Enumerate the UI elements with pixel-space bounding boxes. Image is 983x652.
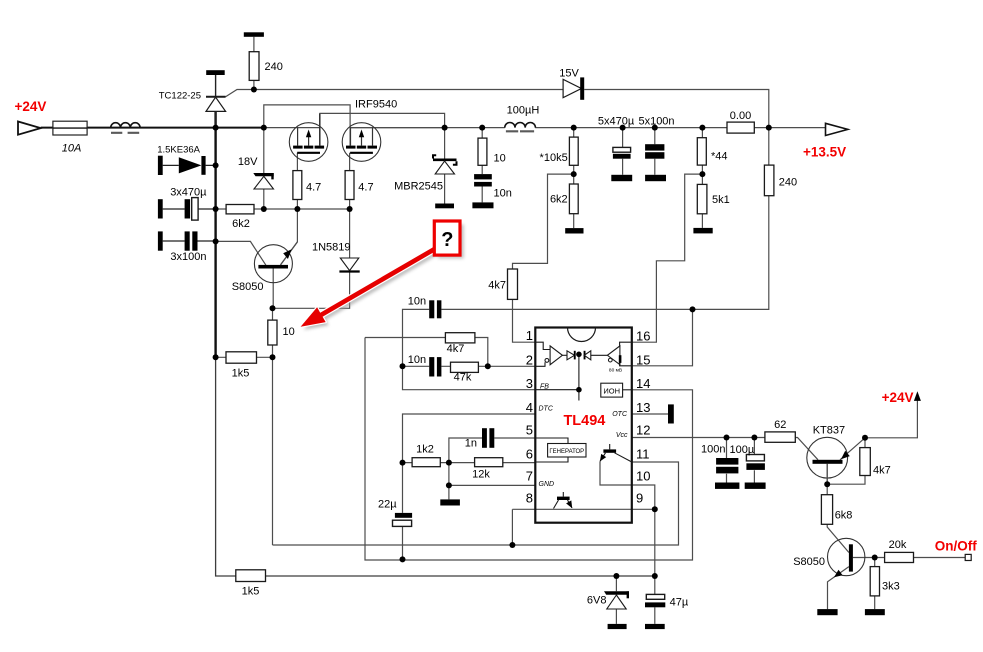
terminal On/Off: [965, 554, 971, 560]
wire: thyristor gate to 240 resistor node: [226, 90, 254, 97]
wire: S8050 collector to 3k3/20k node: [853, 557, 875, 559]
transistor S8050 (on/off): [828, 538, 865, 577]
wire: 10n compensation line to pin area: [403, 309, 693, 389]
wire: MBR2545 branch: [444, 128, 446, 204]
wire: 4.7 resistors to drive row: [297, 200, 349, 210]
svg-text:18V: 18V: [238, 156, 258, 168]
output port arrow +13.5V: [826, 123, 848, 135]
capacitor 100n (Vcc): [716, 458, 738, 465]
resistor 10 (snubber): [478, 138, 487, 165]
capacitor 5x100n: [645, 144, 664, 150]
resistor 4.7 (right gate): [345, 171, 354, 200]
wire: 5x100n branch: [654, 128, 656, 175]
wire: gray rail from gate node to 15V diode and +13.5V node: [254, 90, 769, 128]
transistor Q1 internal (pins 8/9): [554, 492, 573, 509]
svg-text:4.7: 4.7: [306, 182, 321, 194]
resistor 4k7 (KT837 pullup): [860, 448, 871, 476]
callout arrow shadow: [304, 250, 440, 330]
comparator 2 (right): [591, 342, 632, 366]
svg-text:11: 11: [636, 447, 650, 462]
svg-text:4: 4: [526, 400, 533, 415]
svg-text:*10k5: *10k5: [540, 152, 568, 164]
wire: 47u branch: [654, 576, 656, 624]
svg-text:80 мВ: 80 мВ: [609, 367, 622, 373]
wire: main output line with 100uH gap: [350, 127, 825, 129]
svg-text:S8050: S8050: [793, 556, 825, 568]
wire: 10 + 10n snubber branch: [481, 128, 483, 203]
svg-text:12k: 12k: [472, 469, 490, 481]
thyristor TC122-25: [206, 97, 226, 112]
wire: 1N5819 branch: [273, 209, 350, 308]
svg-text:10A: 10A: [62, 143, 82, 155]
wire: 4k7 feedback row: [365, 338, 488, 367]
capacitor 10n (compensation top): [429, 300, 434, 318]
diode 15V: [563, 77, 584, 99]
wire: 10 resistor chain down to drive line: [272, 308, 274, 545]
svg-text:?: ?: [441, 229, 453, 251]
wire: pin 10 / Q2 emitter path: [600, 461, 655, 509]
power terminal bar above 240: [244, 32, 264, 37]
svg-text:1k5: 1k5: [242, 586, 260, 598]
resistor 1k2: [412, 458, 440, 467]
capacitor 3x470u: [185, 199, 191, 218]
wire: 1.5KE36A row: [163, 164, 216, 166]
wire: 240 output resistor branch: [693, 128, 769, 310]
wire: pin 11 drive line to lower rail: [273, 462, 679, 545]
wire: pin 12 Vcc line: [632, 437, 765, 439]
resistor 4k7 (pin1 feedback): [508, 269, 518, 299]
svg-text:4k7: 4k7: [447, 343, 465, 355]
svg-text:4k7: 4k7: [488, 280, 506, 292]
box ION reference: [601, 383, 623, 397]
svg-text:3x100n: 3x100n: [170, 251, 206, 263]
svg-text:240: 240: [779, 177, 797, 189]
wire: TC122-25 anode/cathode leads: [215, 75, 217, 128]
power terminal bar above TC122-25: [206, 70, 225, 75]
svg-text:240: 240: [265, 61, 283, 73]
svg-text:OTC: OTC: [612, 411, 628, 418]
svg-text:3x470µ: 3x470µ: [170, 187, 207, 199]
svg-text:14: 14: [636, 376, 650, 391]
ground 5x100n: [645, 175, 666, 181]
box generator (oscillator): [535, 438, 586, 462]
wire: comparator output to FB node: [535, 354, 579, 400]
wire: MOSFET gate leads to 4.7 resistors: [297, 153, 349, 171]
svg-text:15V: 15V: [559, 68, 579, 80]
resistor 1k5 (upper): [226, 352, 257, 363]
svg-text:GND: GND: [539, 481, 555, 488]
svg-text:7: 7: [526, 469, 533, 484]
svg-text:8: 8: [526, 491, 533, 506]
wire: 10n/47k row to pin 2: [403, 365, 536, 367]
svg-text:10: 10: [636, 469, 650, 484]
svg-text:1k5: 1k5: [232, 368, 250, 380]
zener diode 18V: [253, 173, 273, 189]
ground 5x470u: [611, 175, 632, 181]
wire: KT837 base lead from 62: [795, 438, 818, 460]
svg-text:+24V: +24V: [15, 99, 47, 114]
svg-text:22µ: 22µ: [378, 499, 397, 511]
svg-text:6V8: 6V8: [587, 595, 607, 607]
op-amp/IC TL494 body: [535, 328, 632, 523]
wire: KT837 collector chain: [827, 464, 849, 553]
ground 6k2 divider: [565, 228, 583, 233]
wire: 100u cap branch: [753, 438, 755, 483]
svg-text:100µ: 100µ: [730, 444, 755, 456]
inductor input filter: [111, 123, 140, 128]
capacitor 1n: [482, 428, 487, 448]
svg-text:5x470µ: 5x470µ: [598, 116, 635, 128]
svg-text:0.00: 0.00: [730, 110, 751, 122]
comparator 1 (left): [535, 342, 567, 366]
wire: 6V8 branch: [615, 576, 617, 624]
svg-text:47µ: 47µ: [670, 597, 689, 609]
wire: *44 / 5k1 divider branch: [701, 128, 703, 228]
resistor 1k5 (lower): [236, 570, 266, 582]
wire: S8050 base line from bus: [216, 241, 266, 265]
svg-text:ГЕНЕРАТОР: ГЕНЕРАТОР: [549, 449, 584, 455]
resistor 6k2 (left): [226, 205, 254, 214]
input port arrow +24V: [18, 122, 41, 135]
svg-text:1N5819: 1N5819: [312, 242, 351, 254]
svg-text:62: 62: [774, 419, 786, 431]
wire: left MOSFET drain to output node: [320, 113, 445, 145]
diode pair at comparator outputs: [567, 351, 591, 360]
wire: pin 16 to *44/5k1 tap: [632, 174, 703, 342]
svg-text:3: 3: [526, 376, 533, 391]
fuse 10A: [53, 121, 87, 135]
wire: 20k to On/Off terminal: [875, 557, 966, 559]
svg-text:13: 13: [636, 400, 650, 415]
wire: 6k2 drive row from bus to gate resistors: [216, 208, 350, 210]
svg-text:100µH: 100µH: [507, 105, 540, 117]
ground 5k1: [693, 228, 712, 234]
MOSFET U-right IRF9540: [342, 123, 381, 162]
callout red arrow: [301, 247, 437, 327]
svg-text:6: 6: [526, 447, 533, 462]
wire: pin 14 reference to left rail and 4k7 row: [365, 338, 693, 561]
resistor *10k5: [569, 137, 578, 165]
resistor 10 (below S8050): [268, 320, 277, 345]
svg-text:TL494: TL494: [563, 413, 605, 429]
wire: divider tap to 4k7 feedback resistor: [513, 174, 574, 269]
wire: 100n cap branch: [726, 438, 728, 483]
resistor 240 (top): [249, 52, 259, 81]
resistor 47k: [451, 362, 479, 372]
svg-text:100n: 100n: [701, 444, 725, 456]
wire: 4k7 pullup leads: [827, 438, 865, 484]
capacitor 3x100n: [185, 231, 190, 250]
terminal plate 3x100n: [158, 231, 163, 250]
resistor *44: [697, 138, 706, 165]
wire: 22u cap branch: [402, 463, 404, 560]
svg-text:On/Off: On/Off: [935, 539, 977, 554]
ground 10n snubber: [472, 202, 493, 208]
inductor 100uH: [505, 122, 536, 127]
svg-text:10n: 10n: [408, 296, 426, 308]
ground 47u: [645, 624, 665, 629]
ground S8050 emitter: [817, 609, 837, 615]
wire: pin 1 riser from 4k7: [513, 299, 536, 342]
capacitor 10n (feedback row): [429, 357, 434, 376]
zener diode 6V8: [604, 591, 629, 609]
svg-text:Vcc: Vcc: [616, 432, 628, 439]
svg-text:ИОН: ИОН: [603, 387, 620, 396]
terminal plate 1.5KE36A: [158, 156, 163, 175]
+24V arrow (top right): [914, 391, 921, 401]
wire: drain rail under MOSFETs: [350, 127, 445, 129]
diode 1.5KE36A: [179, 157, 202, 173]
svg-text:MBR2545: MBR2545: [394, 181, 443, 193]
svg-text:5x100n: 5x100n: [638, 116, 674, 128]
IC notch: [568, 328, 596, 342]
wire: KT837 emitter to +24V: [840, 400, 917, 459]
svg-text:10: 10: [283, 326, 295, 338]
resistor 20k: [885, 552, 914, 562]
wire: vertical +24V bus (thick): [214, 111, 216, 358]
wire: 3k3 leads: [874, 558, 876, 610]
svg-text:47k: 47k: [454, 372, 472, 384]
svg-text:1.5KE36A: 1.5KE36A: [157, 145, 200, 156]
wire: 18V zener branch: [263, 128, 265, 209]
ground 100n: [715, 483, 739, 489]
svg-text:12: 12: [636, 423, 650, 438]
pin 13 terminator bar: [668, 404, 674, 423]
wire: pin 15 to compensation line: [632, 309, 693, 365]
wire: ION to pin 14: [623, 389, 632, 391]
svg-text:+13.5V: +13.5V: [803, 145, 846, 160]
ground 100u: [745, 483, 766, 489]
resistor 6k8: [821, 495, 832, 525]
wire: S8050 emitter to gate-resistor node: [281, 209, 298, 265]
diode 1N5819: [339, 258, 359, 272]
svg-text:+24V: +24V: [882, 390, 914, 405]
svg-text:16: 16: [636, 329, 650, 344]
resistor 3k3: [870, 567, 879, 596]
svg-text:2: 2: [526, 353, 533, 368]
wire: 3x100n row: [163, 240, 216, 242]
resistor 240 (output): [764, 165, 774, 196]
wire: 1k2 / 12k row to pin 6: [403, 462, 536, 464]
ground MBR2545: [435, 204, 454, 209]
callout box shadow: [438, 225, 464, 259]
wire: 240 top resistor leads: [253, 37, 255, 90]
wire: +24V input line to MOSFET sources: [41, 127, 264, 129]
ground 6V8: [608, 624, 627, 629]
wire: GND row pin 7: [449, 463, 535, 500]
svg-text:1k2: 1k2: [416, 444, 434, 456]
IC pin numbers right: [636, 329, 650, 506]
resistor 4.7 (left gate): [293, 171, 302, 200]
MOSFET U-left IRF9540: [289, 113, 328, 161]
svg-text:6k8: 6k8: [835, 510, 853, 522]
svg-text:10n: 10n: [494, 188, 512, 200]
svg-text:DTC: DTC: [539, 406, 554, 413]
callout box "?": [434, 221, 460, 255]
svg-text:1: 1: [526, 328, 533, 343]
schottky diode MBR2545: [433, 155, 457, 174]
svg-text:3k3: 3k3: [882, 581, 900, 593]
svg-text:TC122-25: TC122-25: [159, 91, 201, 102]
ground 3k3: [865, 609, 885, 615]
svg-text:15: 15: [636, 353, 650, 368]
ground GND row: [440, 499, 460, 505]
svg-text:S8050: S8050: [232, 281, 264, 293]
svg-text:KT837: KT837: [813, 425, 845, 437]
wire: 1k5 row: [216, 356, 273, 358]
wire: gate riser and top gate line to right MOSFET: [264, 105, 350, 146]
svg-text:10: 10: [494, 153, 506, 165]
svg-text:FB: FB: [540, 384, 549, 391]
resistor 12k: [475, 458, 503, 467]
svg-text:IRF9540: IRF9540: [355, 99, 397, 111]
wire: pin 9 / pin 8 line: [512, 508, 654, 510]
transistor S8050 (driver): [254, 242, 297, 283]
wire: 5x470u branch: [622, 128, 624, 175]
svg-text:6k2: 6k2: [232, 218, 250, 230]
resistor 0.00: [727, 122, 754, 133]
svg-text:20k: 20k: [889, 539, 907, 551]
svg-text:9: 9: [636, 491, 643, 506]
capacitor 22u: [395, 513, 412, 518]
80mV offset bar: [619, 355, 622, 363]
resistor 5k1: [697, 184, 707, 213]
resistor 6k2 (divider): [569, 184, 578, 214]
svg-text:5: 5: [526, 423, 533, 438]
terminal plate 3x470u: [158, 199, 163, 218]
wire: pin 9 drop to bottom rail: [654, 509, 656, 576]
transistor KT837: [807, 437, 850, 484]
wire: *10k5 / 6k2 divider branch: [573, 128, 575, 229]
wire: S8050 collector down to junction: [272, 268, 274, 308]
capacitor 47u: [646, 594, 664, 599]
capacitor 10n (snubber): [474, 174, 492, 179]
svg-text:4k7: 4k7: [873, 465, 891, 477]
svg-text:5k1: 5k1: [712, 194, 730, 206]
capacitor 5x470u: [613, 147, 631, 152]
svg-text:10n: 10n: [408, 354, 426, 366]
svg-text:6k2: 6k2: [550, 194, 568, 206]
wire: 3x470u row: [163, 208, 216, 210]
resistor 4k7 (feedback row): [445, 333, 475, 343]
wire: pin 8 drop to drive rail: [511, 509, 513, 545]
svg-text:4.7: 4.7: [358, 182, 373, 194]
capacitor 100u: [746, 455, 764, 461]
svg-text:1n: 1n: [465, 438, 477, 450]
pin function labels: [539, 384, 628, 488]
svg-text:*44: *44: [711, 151, 728, 163]
wire: pin 13 stub: [632, 413, 668, 415]
wire: bus lower + bottom rail to 6V8/47u: [216, 358, 655, 576]
wire: pin 4 DTC to 1k2 node: [403, 414, 536, 463]
wire: 1n cap row to pin 5: [449, 438, 535, 463]
transistor Q2 internal (pins 10/11): [600, 444, 632, 462]
resistor 62: [765, 432, 795, 442]
IC pin numbers left: [526, 328, 533, 506]
wire: S8050 emitter to ground: [828, 567, 849, 610]
